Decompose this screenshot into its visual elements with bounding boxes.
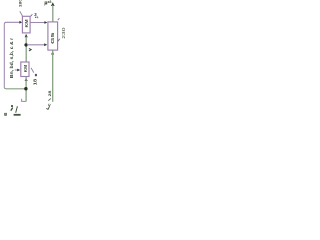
wire: K3 bottom down to end	[52, 50, 54, 101]
terminal bar (bottom-left)	[14, 114, 21, 116]
contactor coil box KM1	[22, 16, 30, 33]
svg-text:KM: KM	[24, 19, 29, 27]
bottom-left label 2.	[11, 105, 13, 107]
wire: loop top segment	[4, 22, 19, 24]
arrow into KM1 left	[19, 21, 22, 24]
wire: junction to K3 left lower with arrow	[27, 44, 44, 46]
bottom hook terminal	[22, 99, 27, 102]
label 2 below junction	[29, 48, 31, 51]
svg-text:28: 28	[48, 90, 52, 96]
wire: loop bottom segment	[4, 87, 25, 89]
flow arrow into KM1 bottom	[25, 34, 28, 37]
svg-text:180: 180	[18, 0, 22, 7]
wire: loop left vertical	[3, 24, 5, 87]
wire: KM1 bottom to junction to KM2 top	[25, 37, 27, 63]
svg-text:230: 230	[62, 28, 66, 39]
relay box KM2 (center)	[21, 62, 29, 77]
flow arrow below K3	[51, 51, 54, 54]
tick at K3 top-right	[58, 18, 60, 20]
wire: KM1 right to K3 left with arrow	[30, 22, 44, 24]
svg-text:KM: KM	[23, 65, 28, 73]
tick at KM1 top-right	[31, 14, 33, 16]
wire: KM2 bottom down to end	[25, 77, 27, 101]
junction dot A	[24, 43, 27, 46]
junction dot B	[24, 87, 27, 90]
switch arm (bottom-left)	[16, 106, 18, 113]
label c (bottom right, lower)	[46, 106, 49, 109]
svg-text:G5: G5	[50, 32, 55, 44]
wire: top into K3	[52, 5, 54, 22]
arrow into KM2 left	[15, 69, 18, 71]
wire: diagonal lead into KM1 top-left	[20, 11, 23, 16]
svg-text:z8: z8	[48, 0, 52, 4]
svg-text:3: 3	[34, 12, 37, 17]
device box K3 (right)	[48, 22, 58, 50]
bottom-left label m	[4, 113, 7, 116]
tick bottom right	[48, 98, 51, 100]
top arrow of right wire	[51, 2, 55, 6]
label z (top center-right)	[45, 2, 48, 5]
svg-text:Bn, bd, s,b, c & r: Bn, bd, s,b, c & r	[9, 38, 13, 79]
tick below 230	[58, 39, 60, 42]
flow arrow below KM2	[25, 78, 28, 81]
symbol right of KM2 (contact arm + dot)	[31, 68, 34, 73]
svg-text:18: 18	[33, 79, 38, 86]
